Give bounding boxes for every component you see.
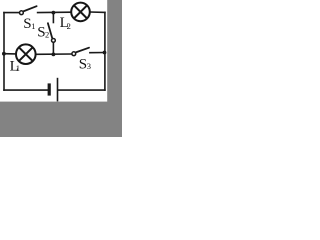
svg-text:3: 3	[87, 61, 91, 71]
svg-text:2: 2	[45, 29, 49, 39]
wire top S1 to L2	[38, 11, 71, 13]
wire S2 branch upper	[52, 13, 54, 23]
wire bottom right (battery to corner)	[59, 89, 105, 91]
wire middle left (node to L1)	[4, 53, 16, 55]
lamp L2	[71, 3, 90, 22]
wire left vertical	[3, 13, 5, 91]
node S2 bottom junction	[52, 53, 56, 57]
svg-text:1: 1	[31, 21, 35, 31]
switch S3 lever	[76, 48, 89, 53]
switch S2 pivot	[52, 39, 56, 43]
lamp L1	[16, 44, 36, 64]
svg-text:1: 1	[16, 63, 20, 73]
wire middle S3 to right wire	[90, 52, 105, 54]
node right middle junction	[103, 51, 107, 55]
switch S3 pivot	[72, 52, 76, 56]
gray band right	[107, 0, 122, 137]
node top junction	[52, 11, 56, 15]
wire top from left corner to S1	[4, 12, 19, 14]
wire top L2 to right corner	[90, 11, 105, 13]
wire middle L1 to S3	[36, 53, 71, 55]
wire right vertical	[104, 12, 106, 90]
switch S2 lever	[48, 23, 53, 39]
battery positive plate (long thin)	[57, 78, 59, 102]
wire S2 branch lower	[52, 42, 54, 54]
wire bottom left (corner to battery)	[4, 89, 48, 91]
gray band bottom	[0, 102, 122, 137]
svg-text:2: 2	[67, 21, 71, 31]
battery negative plate (short thick)	[48, 83, 51, 95]
background	[0, 0, 122, 137]
switch S1 pivot	[20, 11, 24, 15]
node left middle junction	[2, 52, 6, 56]
switch S1 lever	[23, 6, 36, 11]
